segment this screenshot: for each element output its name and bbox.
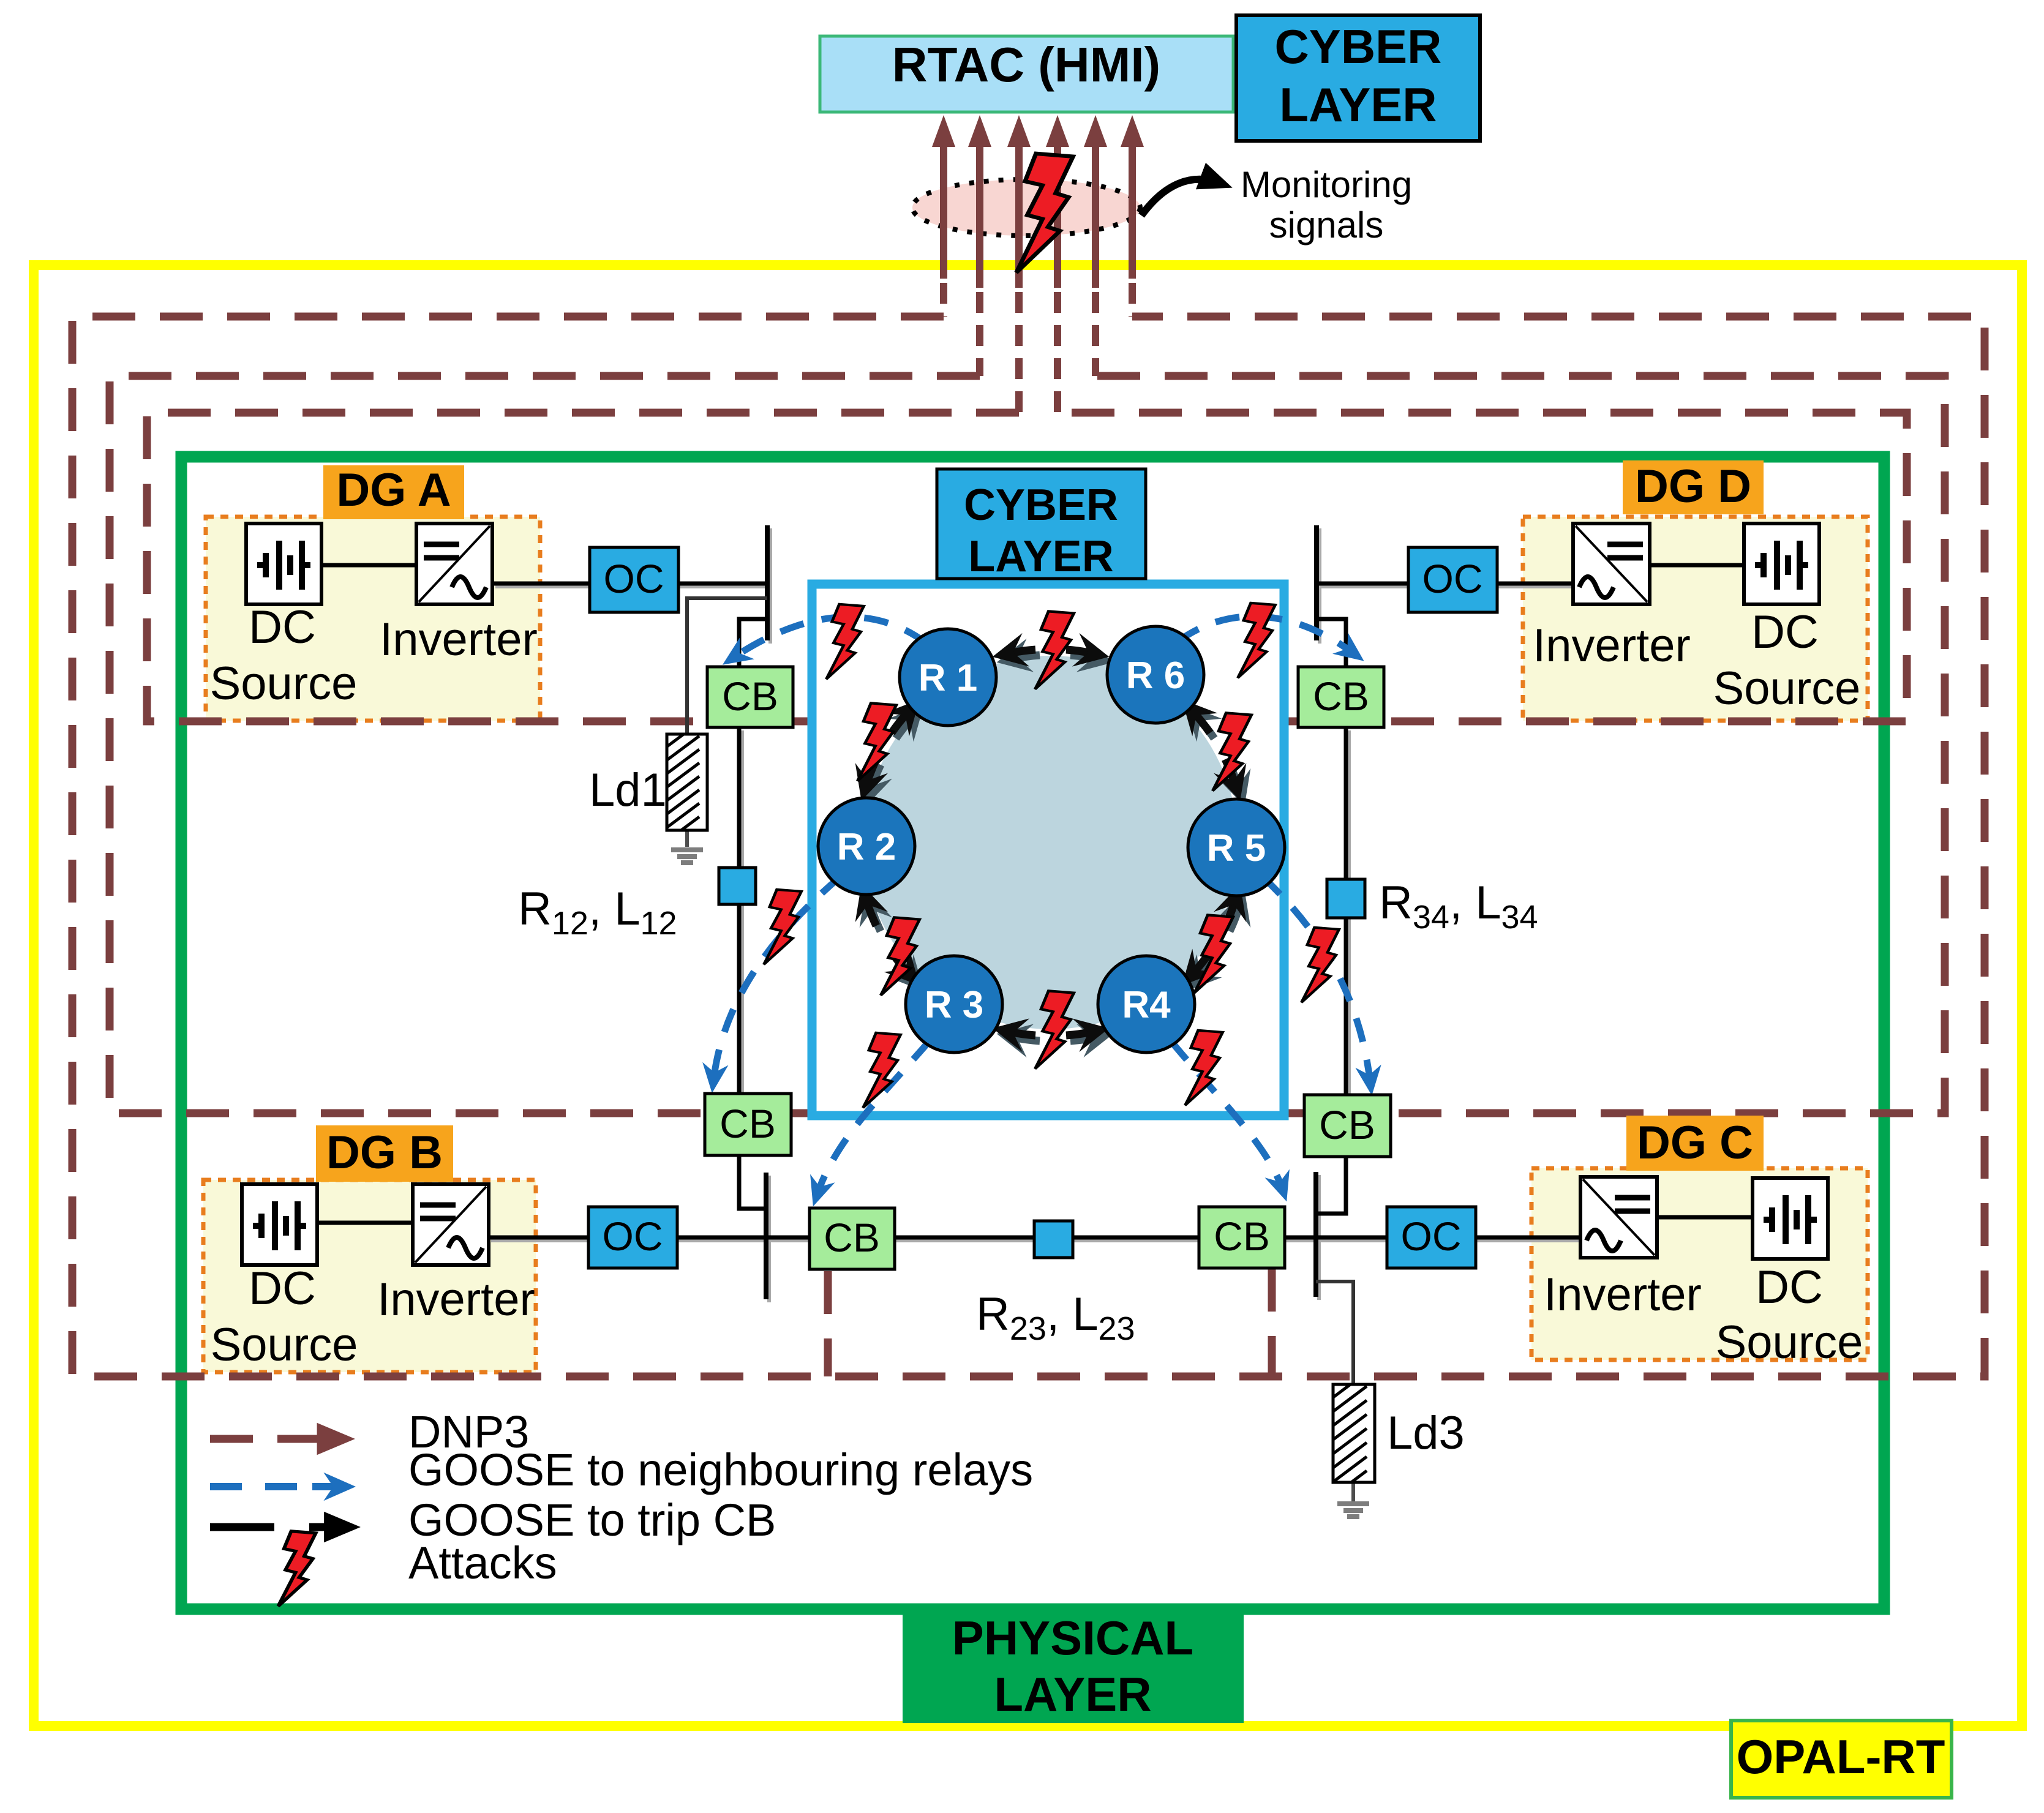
- svg-text:GOOSE to neighbouring relays: GOOSE to neighbouring relays: [408, 1444, 1033, 1495]
- breaker DG B upper CB: [705, 1094, 791, 1155]
- DC source DG C: [1753, 1178, 1828, 1259]
- svg-text:Monitoring: Monitoring: [1241, 164, 1412, 205]
- svg-text:CB: CB: [824, 1215, 880, 1260]
- wire shadows: [491, 528, 1584, 1302]
- RTAC (HMI) box: [820, 36, 1233, 112]
- legend DNP3 arrow: [210, 1435, 331, 1443]
- breaker DG B lower CB: [810, 1208, 895, 1269]
- DNP3 vertical links to RTAC with up arrowheads: [944, 147, 1132, 288]
- svg-text:DG C: DG C: [1637, 1117, 1753, 1169]
- wire: DG C inverter to battery: [1657, 1215, 1753, 1220]
- relay ring background disc: [864, 656, 1238, 1029]
- legend: [210, 1406, 1033, 1606]
- physical layer green border: [181, 457, 1884, 1609]
- wire: DG B lower CB to R23: [895, 1236, 1034, 1240]
- svg-text:OC: OC: [604, 556, 664, 601]
- relay R1: [900, 629, 996, 726]
- GOOSE arc R6 to CB D: [1178, 617, 1355, 654]
- DG C label: [1626, 1116, 1764, 1171]
- OPAL-RT yellow outer border: [34, 265, 2022, 1726]
- wire: DG D battery to inverter: [1650, 563, 1744, 568]
- svg-text:signals: signals: [1269, 205, 1384, 246]
- relay R2: [818, 798, 915, 895]
- svg-text:DC: DC: [1751, 606, 1819, 658]
- svg-text:R 1: R 1: [919, 657, 977, 699]
- svg-text:CB: CB: [1313, 674, 1369, 719]
- inverter DG D (mirrored): [1573, 524, 1650, 604]
- svg-text:OC: OC: [1401, 1214, 1462, 1259]
- bus D vertical: [1314, 525, 1319, 640]
- DG D unit box: [1523, 517, 1868, 721]
- monitoring signals callout arrow: [1141, 179, 1220, 216]
- DG B label: [316, 1125, 453, 1182]
- svg-text:Source: Source: [211, 1319, 358, 1371]
- line impedance node R23: [1034, 1221, 1073, 1258]
- load Ld1: [589, 709, 707, 869]
- svg-text:R 2: R 2: [837, 826, 896, 868]
- CYBER LAYER top box: [1236, 15, 1480, 141]
- wire: bus A jog to CB A: [739, 619, 767, 667]
- svg-text:R 5: R 5: [1207, 827, 1266, 869]
- GOOSE arc R2 to DG B upper CB: [713, 877, 840, 1081]
- attack bolt on monitoring signals: [1016, 154, 1073, 272]
- wire: R12 to DG B upper CB: [737, 904, 742, 1094]
- svg-text:Ld3: Ld3: [1387, 1407, 1465, 1459]
- svg-text:Inverter: Inverter: [1533, 620, 1691, 672]
- CYBER LAYER middle label box: [937, 469, 1146, 579]
- GOOSE blue dashed arcs relays to CBs: [713, 617, 1370, 1195]
- monitoring signals ellipse: [912, 179, 1140, 236]
- wire: bus C jog down to Ld3: [1316, 1282, 1353, 1384]
- svg-text:DG A: DG A: [336, 464, 451, 516]
- wire: bus A jog down to Ld1: [687, 598, 767, 734]
- svg-text:Source: Source: [1716, 1316, 1863, 1368]
- svg-text:R 3: R 3: [925, 984, 983, 1026]
- DNP3 stub below DG C lower CB: [1268, 1269, 1276, 1376]
- bus B vertical: [764, 1173, 768, 1299]
- cyber layer ring box: [812, 584, 1284, 1116]
- GOOSE arc R3 to DG B lower CB: [817, 1041, 930, 1195]
- DNP3 dashed box 1 (outermost): [72, 317, 1985, 1376]
- relay R4: [1098, 956, 1195, 1053]
- DG A unit box: [206, 517, 540, 721]
- bus A vertical: [765, 525, 770, 640]
- wire: bus D jog to CB D: [1317, 619, 1346, 667]
- wire: DG D inverter to OC: [1497, 582, 1573, 586]
- DNP3 stub below DG B lower CB: [824, 1271, 832, 1376]
- DG D label: [1623, 460, 1764, 514]
- svg-text:OPAL-RT: OPAL-RT: [1737, 1730, 1945, 1784]
- wire: CB A down to R12 line: [737, 727, 742, 868]
- svg-text:Attacks: Attacks: [408, 1537, 557, 1588]
- wire: DG C lower CB to OC: [1285, 1236, 1387, 1240]
- svg-text:CB: CB: [720, 1101, 776, 1146]
- svg-text:R 6: R 6: [1126, 655, 1185, 697]
- wire: DG D OC to bus: [1317, 582, 1408, 586]
- circuit wires: [318, 525, 1753, 1501]
- DNP3 dashed box 2: [110, 376, 1945, 1113]
- relay R3: [906, 956, 1002, 1053]
- DG B unit box: [203, 1180, 536, 1372]
- svg-text:DC: DC: [1756, 1261, 1823, 1313]
- breaker CB D: [1298, 667, 1384, 727]
- svg-text:CYBER: CYBER: [964, 481, 1118, 530]
- breaker CB A: [707, 667, 793, 727]
- svg-text:CYBER: CYBER: [1274, 20, 1441, 73]
- DNP3 dashed box 3: [147, 413, 1907, 721]
- attack bolts inside ring: [1035, 611, 1073, 689]
- relay R5: [1188, 799, 1285, 896]
- relay OC C: [1387, 1207, 1476, 1268]
- relay OC A: [590, 547, 678, 612]
- svg-text:CB: CB: [1319, 1102, 1375, 1147]
- DC source DG D: [1744, 524, 1819, 604]
- relay R6: [1107, 626, 1204, 723]
- svg-text:PHYSICAL: PHYSICAL: [952, 1611, 1193, 1665]
- legend GOOSE trip arrow: [210, 1523, 274, 1531]
- line impedance node R34: [1327, 879, 1365, 918]
- svg-text:R4: R4: [1122, 984, 1171, 1026]
- svg-text:Inverter: Inverter: [377, 1274, 535, 1326]
- DG A label: [323, 465, 464, 519]
- load Ld3: [1313, 1358, 1465, 1525]
- svg-text:LAYER: LAYER: [994, 1667, 1151, 1721]
- svg-text:Source: Source: [210, 658, 358, 710]
- GOOSE arc R5 to DG C upper CB: [1263, 877, 1370, 1084]
- svg-text:Ld1: Ld1: [589, 764, 667, 816]
- inverter DG B: [413, 1184, 489, 1265]
- svg-text:Inverter: Inverter: [380, 614, 538, 666]
- wire: CB D down to R34: [1344, 727, 1348, 879]
- line impedance node R12: [719, 868, 756, 904]
- GOOSE arc R4 to DG C lower CB: [1171, 1041, 1283, 1190]
- svg-text:RTAC (HMI): RTAC (HMI): [892, 37, 1160, 92]
- svg-text:DG D: DG D: [1635, 460, 1751, 512]
- wire: below DG B upper CB jog to bus B: [739, 1155, 766, 1209]
- wire: DG A inverter to OC: [492, 582, 590, 586]
- wire: DG C OC to inverter: [1476, 1236, 1580, 1240]
- relay OC B: [588, 1207, 677, 1268]
- svg-text:Source: Source: [1713, 663, 1861, 715]
- legend attack bolt: [278, 1531, 315, 1606]
- wire: DG A OC to bus: [678, 582, 767, 586]
- DC source DG A: [246, 524, 321, 604]
- wire: below DG C upper CB jog to bus C: [1316, 1157, 1346, 1214]
- svg-text:OC: OC: [1422, 556, 1483, 601]
- bus C vertical: [1313, 1172, 1318, 1297]
- wire: DG A battery to inverter: [321, 563, 416, 568]
- svg-text:DC: DC: [249, 1263, 316, 1315]
- DG C unit box: [1531, 1168, 1868, 1360]
- svg-text:DG B: DG B: [326, 1127, 443, 1179]
- wire: R23 to DG C lower CB: [1073, 1236, 1199, 1240]
- inverter DG C (mirrored): [1580, 1177, 1657, 1258]
- breaker DG C upper CB: [1304, 1095, 1391, 1157]
- relay OC D: [1408, 547, 1497, 612]
- legend GOOSE neighbouring arrow: [210, 1483, 318, 1490]
- svg-text:DC: DC: [249, 601, 316, 653]
- attack bolts on GOOSE arcs: [826, 604, 863, 679]
- PHYSICAL LAYER box: [903, 1607, 1244, 1723]
- svg-text:CB: CB: [722, 674, 778, 719]
- breaker DG C lower CB: [1199, 1207, 1285, 1268]
- svg-text:OC: OC: [603, 1214, 663, 1259]
- inverter DG A: [416, 524, 492, 604]
- GOOSE arc R1 to CB A: [732, 617, 926, 658]
- wire: Ld3 stem: [1351, 1482, 1355, 1501]
- DC source DG B: [242, 1184, 317, 1265]
- svg-text:LAYER: LAYER: [968, 532, 1113, 581]
- svg-text:LAYER: LAYER: [1279, 78, 1437, 132]
- svg-text:CB: CB: [1214, 1214, 1270, 1259]
- wire: DG B OC to lower CB: [677, 1236, 810, 1240]
- OPAL-RT box: [1731, 1721, 1952, 1798]
- wire: R34 to DG C upper CB: [1344, 918, 1348, 1095]
- wire: DG B battery to inverter: [318, 1221, 413, 1225]
- svg-text:Inverter: Inverter: [1544, 1269, 1702, 1321]
- wire: DG B inverter to OC: [488, 1236, 588, 1240]
- wire: Ld1 stem: [685, 830, 689, 847]
